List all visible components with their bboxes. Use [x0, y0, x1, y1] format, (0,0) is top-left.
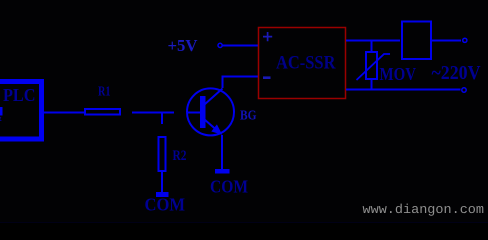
- svg-text:AC-SSR: AC-SSR: [276, 54, 336, 74]
- bottom output wire: [346, 89, 461, 91]
- ground COM2 bar: [215, 169, 230, 174]
- svg-text:R1: R1: [98, 85, 111, 100]
- cut-off terminal mark at left edge: [0, 107, 3, 116]
- MOV bottom lead: [371, 79, 373, 89]
- svg-text:~220V: ~220V: [432, 62, 481, 84]
- wire load to terminal: [432, 40, 461, 42]
- varistor diagonal stroke: [357, 54, 391, 80]
- wire +5V to SSR plus input: [223, 45, 259, 47]
- svg-text:BG: BG: [240, 109, 257, 124]
- svg-text:+5V: +5V: [168, 36, 199, 55]
- svg-text:COM: COM: [210, 177, 248, 197]
- resistor R2: [159, 137, 166, 171]
- terminal top circle: [463, 38, 467, 42]
- svg-text:MOV: MOV: [380, 64, 417, 84]
- bottom edge faint line: [0, 222, 488, 223]
- plus input marking: [263, 32, 272, 41]
- load box: [402, 22, 431, 60]
- wire R2 to ground: [161, 172, 163, 192]
- wire collector to SSR minus input: [222, 76, 259, 78]
- collector stroke: [205, 89, 223, 105]
- emitter wire down: [221, 135, 223, 169]
- emitter stroke: [205, 120, 217, 130]
- svg-text:PLC: PLC: [3, 85, 36, 105]
- transistor Q1 BG circle: [187, 88, 234, 135]
- transistor base bar: [200, 96, 206, 128]
- collector wire up: [222, 77, 224, 89]
- wire R1 to base: [132, 112, 174, 114]
- base wire inside circle: [187, 112, 200, 114]
- varistor MOV body: [366, 52, 377, 79]
- svg-text:www.diangon.com: www.diangon.com: [363, 202, 485, 217]
- junction drop wire: [161, 113, 163, 125]
- wire PLC to R1: [44, 112, 84, 114]
- ground COM1 bar: [156, 192, 169, 197]
- PLC box: [0, 82, 42, 140]
- emitter arrowhead: [211, 124, 222, 134]
- minus input marking: [263, 76, 271, 79]
- svg-text:R2: R2: [173, 148, 187, 164]
- resistor R1: [85, 109, 120, 115]
- MOV top lead: [371, 41, 373, 53]
- svg-text:COM: COM: [145, 195, 186, 215]
- terminal bottom circle: [462, 88, 466, 92]
- +5V node terminal circle: [218, 43, 222, 47]
- AC-SSR box U1: [259, 28, 346, 99]
- top output wire: [346, 40, 400, 42]
- svg-text:&: &: [0, 113, 2, 124]
